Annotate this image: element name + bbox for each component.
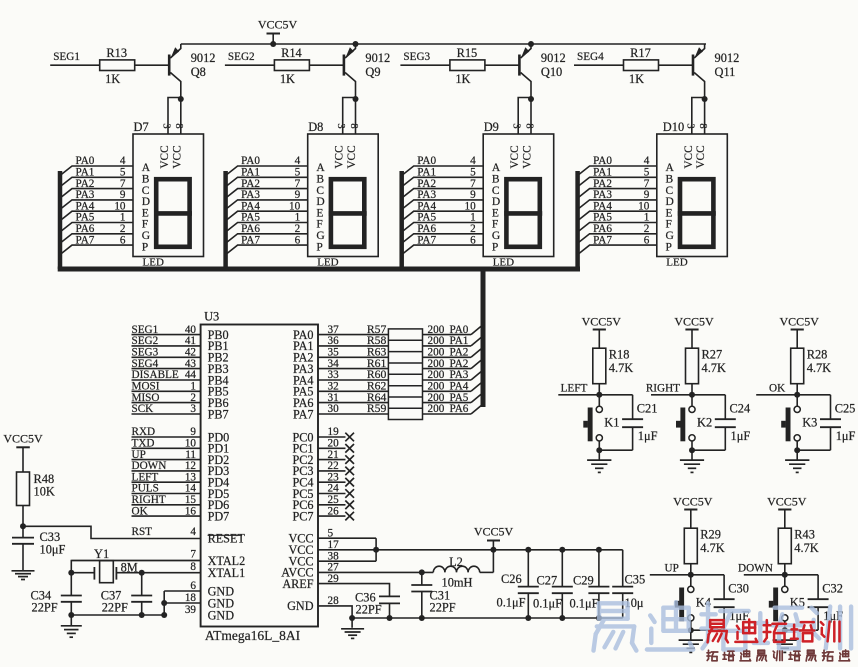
svg-text:6: 6 [470,234,476,246]
7-segment display D10 [657,134,728,257]
svg-text:PA0: PA0 [241,155,260,167]
svg-text:SEG3: SEG3 [132,347,159,359]
pin PD1 (10) net TXD [132,438,230,456]
svg-text:A: A [142,162,151,174]
wire OK node [756,394,830,396]
svg-text:VCC5V: VCC5V [673,494,713,508]
svg-text:F: F [492,219,498,231]
svg-text:SEG3: SEG3 [403,51,430,63]
svg-text:A: A [666,162,675,174]
svg-text:A: A [492,162,501,174]
svg-text:1K: 1K [629,72,644,86]
svg-text:33: 33 [328,369,340,381]
svg-text:PA4: PA4 [593,200,612,212]
pin PA1 (36) [293,335,388,353]
svg-text:10μF: 10μF [40,543,66,557]
svg-text:VCC: VCC [695,145,707,168]
svg-text:200: 200 [428,358,445,370]
wire PA2 to display bus [471,347,483,357]
svg-text:VCC5V: VCC5V [3,432,43,446]
svg-text:PA6: PA6 [450,403,469,415]
wire PA2 to D9 pin 7 [402,178,484,198]
svg-text:GND: GND [287,599,314,613]
svg-text:C: C [316,185,324,197]
wire RIGHT node [651,394,725,396]
svg-text:PA0: PA0 [76,155,95,167]
junction C36 / ground rail [387,615,393,621]
junction GND tie 18 [161,600,167,606]
wire PA1 to display bus [471,336,483,346]
junction AVCC / C31 [419,569,425,575]
svg-text:SEG2: SEG2 [228,51,255,63]
switch K3 (push button) [781,395,800,442]
svg-text:C: C [142,185,150,197]
seven-segment digit glyph (D8) [331,179,364,247]
svg-text:9: 9 [470,189,476,201]
svg-text:PA1: PA1 [450,335,469,347]
svg-text:SEG4: SEG4 [132,358,159,370]
svg-text:VCC5V: VCC5V [767,494,807,508]
IC U3 ATmega16L outline [201,325,318,627]
wire PA2 to D10 pin 7 [578,178,657,198]
wire mid ground rail [352,617,623,619]
svg-text:35: 35 [328,347,340,359]
svg-text:F: F [666,219,672,231]
resistor R15 [450,60,485,71]
junction collector node D10 [702,96,708,102]
pin PC7 (26) no-connect [292,505,354,523]
wire PA3 to D7 pin 9 [60,189,133,209]
svg-text:PA4: PA4 [417,200,436,212]
svg-text:13: 13 [185,471,197,483]
capacitor C33 10uF [22,526,24,537]
svg-text:15: 15 [185,494,197,506]
svg-text:D9: D9 [484,120,499,134]
svg-text:4: 4 [120,155,126,167]
7-segment display D7 [133,134,204,257]
wire R15 to Q10 base [485,64,520,66]
svg-text:C27: C27 [537,574,558,588]
junction LEFT node [596,392,602,398]
svg-text:22PF: 22PF [32,601,58,615]
svg-text:B: B [666,174,674,186]
wire R17 to Q11 base [659,64,694,66]
wire K1 to ground [598,441,600,450]
resistor R58 200 [367,334,471,347]
wire GND pins tie [164,590,200,592]
pin PC0 (19) no-connect [292,426,354,444]
wire PA4 to D7 pin 10 [60,200,133,220]
svg-text:VCC5V: VCC5V [474,525,514,539]
svg-text:36: 36 [328,335,340,347]
capacitor C27 0.1uF [552,547,573,621]
pin VCC (17) [288,539,339,557]
svg-text:6: 6 [120,234,126,246]
wire R29 to UP node [690,564,692,575]
svg-text:20: 20 [328,438,340,450]
svg-text:PA2: PA2 [450,347,469,359]
svg-text:R59: R59 [367,402,387,415]
svg-text:2: 2 [190,392,196,404]
svg-text:12: 12 [185,460,196,472]
wire PA5 to D10 pin 1 [578,212,657,232]
svg-text:Q9: Q9 [365,65,380,79]
svg-text:7: 7 [190,549,196,561]
svg-text:SEG1: SEG1 [53,51,80,63]
wire RST to RESET pin [23,526,201,538]
junction C37 ground rail [139,612,145,618]
svg-text:PA4: PA4 [241,200,260,212]
pin PD2 (11) net UP [132,449,230,467]
svg-text:7: 7 [295,178,301,190]
pin PB5 (1) net MOSI [132,381,229,399]
capacitor C29 0.1uF [588,547,609,621]
capacitor C30 1uF [691,575,735,630]
pin PC4 (23) no-connect [292,471,354,489]
svg-text:10: 10 [638,200,650,212]
svg-text:2: 2 [470,223,476,235]
wire PA3 to display bus [471,370,483,380]
resistor R27 4.7K [686,348,699,384]
svg-text:R15: R15 [457,46,478,60]
junction C34 ground rail [68,612,74,618]
ground (U3 decoupling) [341,628,364,630]
wire PA0 to D9 pin 4 [402,155,484,175]
svg-text:3: 3 [511,123,522,128]
junction C32/K5 ground node [782,627,788,633]
junction DOWN node [782,572,788,578]
svg-text:PA6: PA6 [593,223,612,235]
resistor R63 200 [367,346,471,359]
wire VCC pins 5/17/38 tie [318,537,376,539]
junction XTAL1 / Y1 / C37 [139,570,145,576]
svg-text:K1: K1 [604,415,619,429]
svg-text:LEFT: LEFT [132,471,159,483]
wire top VCC rail [181,43,706,45]
svg-text:Q10: Q10 [541,65,562,79]
svg-text:RESET: RESET [208,532,246,546]
switch K4 (push button) [675,575,694,622]
svg-text:7: 7 [644,178,650,190]
switch K1 (push button) [583,395,602,442]
svg-text:23: 23 [328,471,340,483]
wire PA2 to display bus [471,359,483,369]
svg-text:1μF: 1μF [638,429,658,443]
svg-text:30: 30 [328,403,340,415]
svg-text:10: 10 [114,200,126,212]
segment letters A-P (D7) [142,162,151,253]
svg-text:10: 10 [185,438,197,450]
svg-text:37: 37 [328,324,340,336]
svg-text:PA5: PA5 [241,212,260,224]
svg-text:D: D [666,196,674,208]
wire PA6 to display bus [471,404,483,414]
ground (RIGHT button) [691,450,693,460]
svg-text:1: 1 [644,212,650,224]
svg-text:PA6: PA6 [76,223,95,235]
svg-text:22: 22 [328,460,339,472]
svg-text:9012: 9012 [715,51,740,65]
svg-text:16: 16 [185,505,197,517]
pin GND (18) [185,592,234,610]
svg-text:PA1: PA1 [76,167,95,179]
wire PA3 to D10 pin 9 [578,189,657,209]
resistor R18 4.7K [593,348,606,384]
junction UP node [688,572,694,578]
svg-text:9012: 9012 [191,51,216,65]
svg-text:1: 1 [295,212,301,224]
capacitor C34 22PF [70,573,72,596]
svg-text:K2: K2 [697,415,712,429]
capacitor C31 22PF [421,572,423,585]
wire R28 to OK node [796,384,798,395]
wire Q8 collector to D7 pins 3,8 [180,99,182,134]
svg-text:10K: 10K [34,485,55,499]
svg-text:Y1: Y1 [94,547,109,561]
svg-text:VCC5V: VCC5V [674,314,714,328]
svg-text:8: 8 [523,123,534,128]
pin PA4 (33) [293,369,388,387]
junction C25/K3 ground node [794,447,800,453]
wire PA5 to display bus [471,393,483,403]
wire PA6 to D8 pin 2 [226,223,308,243]
wire crystal ground rail [71,614,164,616]
svg-text:C24: C24 [730,401,751,415]
junction RST node [20,523,26,529]
crystal Y1 8M [71,561,141,583]
resistor R17 [624,60,659,71]
svg-text:4: 4 [644,155,650,167]
svg-text:G: G [316,230,324,242]
pin PB1 (41) net SEG2 [132,335,229,353]
svg-text:PA3: PA3 [593,189,612,201]
wire PA6 to D9 pin 2 [402,223,484,243]
svg-text:R43: R43 [794,528,815,542]
svg-text:7: 7 [120,178,126,190]
capacitor C36 22PF [379,595,400,597]
svg-text:E: E [316,207,323,219]
svg-text:D: D [142,196,150,208]
svg-text:VCC: VCC [346,145,358,168]
watermark red text YiDiTuo PeiXun [708,620,840,643]
svg-text:PA7: PA7 [593,234,612,246]
svg-text:1μF: 1μF [836,429,856,443]
svg-text:VCC: VCC [334,145,346,168]
svg-text:SEG2: SEG2 [132,335,159,347]
svg-text:R27: R27 [702,348,723,362]
pin AVCC (27) [281,562,339,580]
svg-text:B: B [316,174,324,186]
svg-text:P: P [492,241,498,253]
svg-text:D10: D10 [663,120,684,134]
svg-text:PA6: PA6 [417,223,436,235]
svg-text:P: P [142,241,148,253]
segment letters A-P (D10) [666,162,675,253]
svg-text:P: P [316,241,322,253]
wire SEG3 to R15 [400,64,450,66]
svg-text:A: A [316,162,325,174]
resistor R59 200 [367,402,471,415]
svg-text:0.1μF: 0.1μF [533,597,562,611]
svg-text:PA2: PA2 [593,178,612,190]
pin PB0 (40) net SEG1 [132,324,229,342]
svg-text:VCC: VCC [522,145,534,168]
pin PC2 (21) no-connect [292,449,354,467]
svg-text:8: 8 [348,123,359,128]
svg-text:D: D [316,196,324,208]
svg-text:26: 26 [328,505,340,517]
wire PA7 to D8 pin 6 [226,234,308,254]
svg-text:0.1μF: 0.1μF [570,597,599,611]
svg-text:PA5: PA5 [450,392,469,404]
svg-text:PA5: PA5 [76,212,95,224]
svg-text:5: 5 [644,167,650,179]
seven-segment digit glyph (D9) [506,179,539,247]
svg-text:PA2: PA2 [450,358,469,370]
svg-text:VCC: VCC [683,145,695,168]
svg-text:C35: C35 [625,573,646,587]
wire PA6 to D7 pin 2 [60,223,133,243]
svg-text:9: 9 [120,189,126,201]
pin PD3 (12) net DOWN [132,460,230,478]
svg-text:VCC: VCC [509,145,521,168]
svg-text:AREF: AREF [282,577,313,591]
wire PA1 to D8 pin 5 [226,167,308,187]
svg-text:PA7: PA7 [293,407,314,421]
pin PA6 (31) [293,392,388,410]
svg-text:R18: R18 [609,348,630,362]
svg-text:VCC: VCC [159,145,171,168]
svg-text:R13: R13 [106,46,127,60]
svg-text:PA7: PA7 [417,234,436,246]
svg-text:8M: 8M [121,560,138,574]
svg-text:SEG4: SEG4 [577,51,604,63]
svg-text:D7: D7 [134,120,149,134]
resistor R61 200 [367,357,471,370]
wire PA1 to D10 pin 5 [578,167,657,187]
pin PC3 (22) no-connect [292,460,354,478]
svg-text:6: 6 [644,234,650,246]
junction RIGHT node [689,392,695,398]
svg-text:9: 9 [295,189,301,201]
junction C30/K4 ground node [688,627,694,633]
svg-text:4.7K: 4.7K [794,541,818,555]
transistor Q9 (9012 PNP) [344,44,356,99]
svg-text:G: G [492,230,500,242]
svg-text:PA3: PA3 [417,189,436,201]
svg-text:1: 1 [190,381,196,393]
svg-text:10: 10 [465,200,477,212]
wire PA3 to D8 pin 9 [226,189,308,209]
switch K5 (push button) [769,575,788,622]
svg-text:5: 5 [295,167,301,179]
capacitor C37 22PF [141,573,143,596]
capacitor C26 0.1uF [518,547,539,621]
svg-text:2: 2 [295,223,301,235]
svg-text:PA0: PA0 [450,324,469,336]
transistor Q10 (9012 PNP) [519,44,531,99]
svg-text:PA1: PA1 [241,167,260,179]
svg-text:C21: C21 [637,401,658,415]
ground (UP button) [690,630,692,640]
svg-text:PA7: PA7 [241,234,260,246]
svg-text:3: 3 [684,123,695,128]
svg-text:PD7: PD7 [208,509,230,523]
svg-text:F: F [316,219,322,231]
resistor R57 200 [367,323,471,336]
wire PA1 to D7 pin 5 [60,167,133,187]
bus drop to PA resistor network [481,267,486,408]
svg-text:DOWN: DOWN [132,460,167,472]
svg-text:4.7K: 4.7K [700,541,724,555]
bus thick horizontal (display common) [58,267,580,272]
svg-text:10mH: 10mH [442,576,473,590]
junction GND pin 28 / ground rail [349,615,355,621]
wire K4 to ground [690,621,692,630]
svg-text:9012: 9012 [541,51,566,65]
svg-text:0.1μF: 0.1μF [497,596,526,610]
pin PC5 (24) no-connect [292,483,354,501]
svg-text:R28: R28 [807,348,828,362]
svg-text:200: 200 [428,392,445,404]
svg-text:C32: C32 [822,581,843,595]
wire PA6 to D10 pin 2 [578,223,657,243]
pin PD4 (13) net LEFT [132,471,230,489]
ground (C33) [12,570,35,572]
watermark slogan (RF and antenna design experts) [707,650,850,661]
svg-text:4: 4 [295,155,301,167]
svg-text:8: 8 [190,561,196,573]
svg-text:41: 41 [185,335,196,347]
resistor R13 [100,60,135,71]
svg-text:200: 200 [428,381,445,393]
svg-text:1μF: 1μF [731,429,751,443]
svg-text:PA2: PA2 [241,178,260,190]
wire Q9 collector to D8 pins 3,8 [355,99,357,134]
pin PB3 (43) net SEG4 [132,358,229,376]
svg-text:4.7K: 4.7K [807,361,831,375]
pin PB4 (44) net DISABLE [132,369,229,387]
junction VCC5V mid stub [490,547,496,553]
svg-text:PA5: PA5 [593,212,612,224]
svg-text:1: 1 [120,212,126,224]
wire PA5 to D7 pin 1 [60,212,133,232]
junction C21/K1 ground node [596,447,602,453]
svg-text:10: 10 [289,200,301,212]
svg-text:3: 3 [335,123,346,128]
junction XTAL2 / Y1 / C34 [68,570,74,576]
svg-text:C26: C26 [501,572,522,586]
wire L2 to VCC rail [480,571,494,573]
pin PD7 (16) net OK [132,505,230,523]
wire PA1 to D9 pin 5 [402,167,484,187]
wire R13 to Q8 base [135,64,170,66]
svg-text:2: 2 [120,223,126,235]
wire GND pin 28 [318,606,352,628]
junction GND tie 39 [161,612,167,618]
capacitor C32 1uF [785,575,829,630]
bus bar for D9 [399,171,404,269]
svg-text:MISO: MISO [132,392,160,404]
svg-text:39: 39 [185,604,197,616]
wire XTAL2 net [71,561,200,573]
svg-text:PA0: PA0 [417,155,436,167]
pin PD5 (14) net PULS [132,483,230,501]
pin PD0 (9) net RXD [132,426,230,444]
svg-text:L2: L2 [449,555,463,569]
wire SEG1 to R13 [50,64,99,66]
svg-text:4.7K: 4.7K [609,361,633,375]
